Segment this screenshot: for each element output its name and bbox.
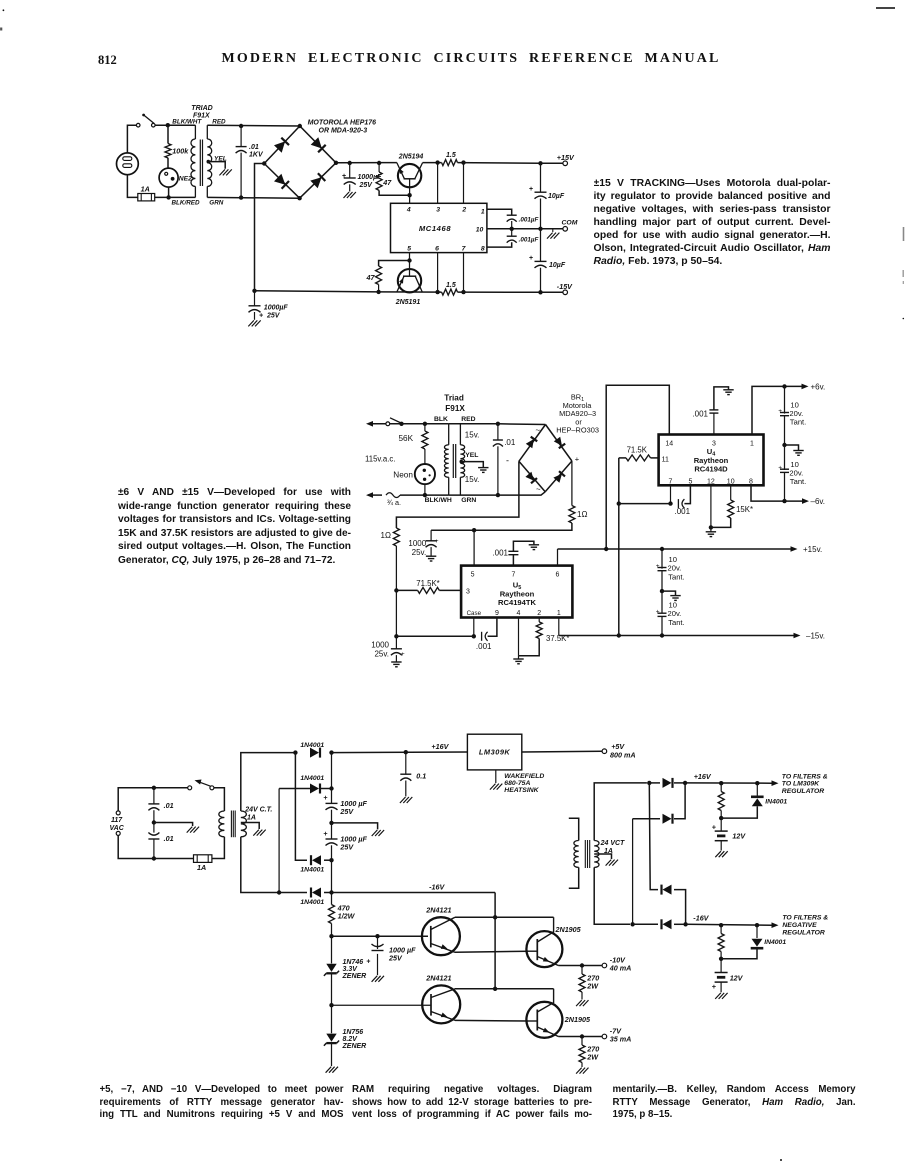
svg-text:1N746: 1N746: [343, 959, 364, 966]
junction 100k / top rail: [166, 123, 170, 127]
junction tant ground: [660, 589, 664, 593]
svg-text:-16V: -16V: [693, 914, 709, 923]
AC plug P1: [117, 153, 139, 175]
emitter rail Q1 to 1.5 resistor: [423, 162, 442, 164]
wire BR1 minus output down-left: [396, 461, 519, 528]
svg-text:IN4001: IN4001: [765, 799, 787, 806]
svg-text:8.2V: 8.2V: [343, 1036, 359, 1043]
switch S2: [386, 422, 390, 426]
resistor 470 1/2W: [331, 893, 333, 905]
junction Q2 base / 47 wire: [407, 258, 411, 262]
svg-text:0.1: 0.1: [416, 772, 426, 781]
svg-text:¾ a.: ¾ a.: [387, 498, 401, 507]
wire NE2 to bottom rail: [168, 187, 170, 197]
vertical output rail with 10uF caps: [540, 163, 542, 192]
junction battery branch -: [719, 923, 723, 927]
Q2 base lead: [409, 253, 411, 277]
svg-text:8: 8: [481, 245, 485, 252]
wire plug top to switch: [127, 125, 136, 153]
junction collector node 1: [493, 915, 497, 919]
svg-text:+: +: [656, 563, 660, 570]
svg-text:BLK/WH: BLK/WH: [425, 497, 452, 504]
Q5 collector wire: [455, 988, 554, 990]
117 VAC terminals: [116, 811, 120, 815]
-16V battery rail: [686, 923, 772, 926]
zener D6 1N756 8.2V: [331, 1005, 333, 1033]
junction pin7 riser: [461, 290, 465, 294]
svg-text:25V: 25V: [339, 843, 354, 852]
tant rail +-6v: [784, 386, 786, 413]
junction D1 anode: [293, 750, 297, 754]
output -7V wire: [558, 1036, 602, 1038]
T3 center tap ground: [241, 823, 259, 830]
resistor (battery -): [720, 925, 722, 933]
capacitor .001uF (upper): [507, 214, 517, 216]
wire BR1 plus output down: [571, 461, 573, 506]
terminal +15V: [563, 161, 568, 166]
svg-text:2W: 2W: [586, 982, 599, 991]
svg-text:REGULATOR: REGULATOR: [782, 929, 825, 936]
svg-text:Tant.: Tant.: [790, 477, 806, 486]
svg-text:.001µF: .001µF: [519, 216, 539, 223]
Q3 emitter to Q4 base: [455, 951, 528, 952]
svg-text:1000: 1000: [408, 539, 426, 548]
svg-text:1N4001: 1N4001: [300, 775, 324, 782]
svg-text:+6v.: +6v.: [811, 382, 826, 391]
svg-text:10: 10: [669, 601, 677, 610]
svg-text:1/2W: 1/2W: [338, 912, 356, 921]
svg-text:MOTOROLA HEP176: MOTOROLA HEP176: [308, 120, 377, 127]
T3 secondary bottom riser: [241, 837, 279, 893]
transistor Q3 2N4121 (upper): [422, 917, 460, 955]
svg-text:1N756: 1N756: [343, 1029, 364, 1036]
svg-text:LM309K: LM309K: [479, 748, 511, 757]
junction D8 vert / -16V rail: [630, 922, 634, 926]
LM309K ground + heatsink label: [495, 770, 497, 783]
junction +6v tant rail: [782, 384, 786, 388]
diode D9 1N4001 (discharge-): [663, 885, 672, 895]
capacitor 1000 25v (upper): [430, 530, 432, 541]
svg-text:+: +: [529, 255, 533, 262]
U5 pin 6 riser to +15v rail: [557, 549, 559, 566]
svg-text:~: ~: [536, 485, 541, 494]
switch S3: [188, 786, 192, 790]
svg-text:+: +: [778, 408, 782, 415]
resistor 270 2W (lower): [581, 1037, 583, 1046]
U4 pin 1 wire to +6v: [752, 386, 802, 434]
svg-text:4: 4: [517, 610, 521, 617]
junction .01 cap bottom: [239, 195, 243, 199]
svg-text:1.5: 1.5: [446, 152, 456, 159]
svg-text:BLK/RED: BLK/RED: [172, 200, 200, 207]
regulator U6 LM309K box: [467, 734, 521, 770]
regulator U4 Raytheon RC4194D box: [659, 435, 764, 486]
svg-text:+: +: [529, 186, 533, 193]
resistor 37.5K* on pin 2: [538, 618, 540, 622]
svg-text:Triad: Triad: [444, 394, 464, 403]
junction tant ground (6v): [782, 443, 786, 447]
bottom rail transformer to bridge: [207, 196, 299, 199]
capacitor .01 (upper): [153, 788, 155, 804]
pin 1 wire to .001 cap: [487, 209, 512, 215]
capacitor .001 at U5 pin7: [512, 555, 514, 566]
YEL center tap + ground: [207, 160, 211, 164]
U4 pin 3 comp cap to ground: [713, 413, 715, 434]
terminal COM: [563, 227, 568, 232]
resistor 47 (upper): [378, 163, 380, 172]
right margin scan marks: [903, 227, 905, 241]
svg-text:IN4001: IN4001: [764, 939, 786, 946]
capacitor 1000uF 25V (left lower): [254, 291, 256, 306]
svg-text:Neon: Neon: [393, 470, 413, 479]
capacitor .001 (case-9): [481, 632, 483, 641]
circuit 3 group: [110, 734, 829, 1073]
svg-text:VAC: VAC: [110, 825, 125, 832]
svg-text:MC1468: MC1468: [419, 224, 451, 233]
svg-text:2N4121: 2N4121: [425, 906, 451, 915]
junction 470 / Q3 base: [329, 934, 333, 938]
junction +15v / tant rail: [660, 547, 664, 551]
switch S1: [136, 123, 140, 127]
svg-text:800 mA: 800 mA: [610, 750, 636, 759]
svg-text:2N5194: 2N5194: [398, 154, 424, 161]
U5 pin 4 ground: [518, 618, 520, 656]
terminal +5V: [602, 749, 607, 754]
junction D7 anode node: [647, 781, 651, 785]
svg-text:+: +: [575, 455, 580, 464]
junction 1000uF top-right cap: [348, 161, 352, 165]
svg-text:TO FILTERS &: TO FILTERS &: [782, 915, 828, 922]
svg-text:-: -: [506, 456, 509, 466]
svg-text:11: 11: [662, 456, 669, 463]
svg-text:7: 7: [669, 479, 673, 486]
junction +15V vertical rail: [538, 161, 542, 165]
T4 center tap ground: [594, 854, 611, 859]
svg-text:1: 1: [750, 440, 754, 447]
T4 secondary top riser: [594, 783, 647, 841]
diode D10 1N4001 (on -16V rail): [633, 923, 658, 925]
riser U5 pin 5: [473, 530, 475, 565]
zener D5 1N746 3.3V: [331, 936, 333, 963]
junction .01 top: [152, 786, 156, 790]
svg-text:WAKEFIELD: WAKEFIELD: [504, 773, 544, 780]
junction 47 lower / bottom rail: [376, 290, 380, 294]
pin 10 wire / COM node: [487, 228, 541, 230]
junction -15v / 71.5K vertical: [617, 633, 621, 637]
svg-text:115v.a.c.: 115v.a.c.: [365, 455, 395, 464]
svg-text:Tant.: Tant.: [790, 418, 806, 427]
svg-text:5: 5: [471, 572, 475, 579]
svg-text:.001µF: .001µF: [519, 236, 539, 243]
D8 feed vertical: [632, 819, 634, 925]
svg-text:14: 14: [665, 440, 673, 447]
svg-text:24V C.T.: 24V C.T.: [244, 807, 272, 814]
svg-text:1.5: 1.5: [446, 282, 456, 289]
svg-text:15v.: 15v.: [465, 431, 480, 440]
svg-text:15K*: 15K*: [736, 505, 753, 514]
U4 pin 12 ground: [710, 485, 712, 527]
svg-text:3: 3: [712, 440, 716, 447]
svg-text:–6v.: –6v.: [811, 497, 826, 506]
svg-text:+16V: +16V: [431, 742, 449, 751]
circuit 2 group: [365, 382, 825, 667]
svg-text:8: 8: [749, 479, 753, 486]
svg-text:1A: 1A: [197, 863, 206, 872]
+16V battery rail: [685, 782, 772, 784]
svg-text:TRIAD: TRIAD: [191, 105, 212, 112]
junction caps / pin10: [510, 227, 514, 231]
svg-text:10µF: 10µF: [548, 193, 565, 200]
diode D8 1N4001 (charge 2): [633, 818, 660, 820]
diode D7 1N4001 (charge+): [649, 782, 660, 784]
wire to +15V: [458, 162, 541, 165]
svg-text:HEATSINK: HEATSINK: [504, 787, 539, 794]
junction resistor/diode bottom +: [719, 816, 723, 820]
svg-text:+: +: [712, 982, 717, 991]
svg-text:12V: 12V: [732, 831, 746, 840]
BR1 diode bottom-left: [525, 472, 534, 481]
svg-text:71.5K*: 71.5K*: [416, 579, 439, 588]
svg-text:+: +: [656, 609, 660, 616]
wire switch to transformer, top rail: [155, 124, 195, 126]
riser pin 6: [437, 253, 439, 293]
svg-text:1A: 1A: [247, 814, 256, 821]
+15v rail: [558, 548, 791, 550]
svg-text:5: 5: [688, 479, 692, 486]
svg-text:+: +: [323, 793, 328, 802]
svg-text:+: +: [366, 959, 370, 966]
svg-text:25V: 25V: [266, 313, 281, 320]
bridge diode top-right: [311, 137, 322, 148]
svg-text:-15V: -15V: [557, 282, 573, 291]
svg-text:6: 6: [556, 572, 560, 579]
main filter rail verticals + caps: [331, 753, 333, 789]
svg-text:24 VCT: 24 VCT: [600, 840, 625, 847]
junction -15v / tant rail: [660, 633, 664, 637]
input wiring top: [118, 788, 188, 811]
svg-text:100k: 100k: [172, 147, 189, 156]
svg-text:2N1905: 2N1905: [555, 925, 582, 934]
svg-text:35 mA: 35 mA: [610, 1035, 632, 1044]
svg-text:+: +: [259, 313, 263, 320]
svg-text:10µF: 10µF: [549, 262, 566, 269]
junction -6v tant rail: [782, 499, 786, 503]
svg-text:NE2: NE2: [179, 175, 192, 182]
page top-right mark: [876, 7, 895, 9]
svg-text:ZENER: ZENER: [342, 973, 367, 980]
svg-text:OR MDA-920-3: OR MDA-920-3: [319, 127, 368, 134]
junction D3 / filter rail: [329, 858, 333, 862]
resistor 47 (lower): [379, 261, 410, 267]
fuse 1A: [138, 194, 155, 201]
svg-text:3: 3: [436, 207, 440, 214]
svg-text:RC4194D: RC4194D: [694, 465, 728, 474]
svg-text:ZENER: ZENER: [342, 1043, 367, 1050]
svg-text:10: 10: [476, 226, 484, 233]
resistor (battery +): [720, 783, 722, 791]
bridge diode top-left: [274, 141, 285, 152]
resistor 71.5K (upper): [619, 457, 626, 459]
fuse 1A (bottom): [194, 855, 212, 863]
bridge diode bottom-right: [310, 177, 321, 188]
battery 12V - (reversed): [720, 959, 722, 973]
circuit 1 group: [117, 105, 578, 327]
wire plug bottom / bottom rail: [127, 175, 137, 198]
svg-text:+: +: [778, 465, 782, 472]
svg-text:RED: RED: [461, 416, 475, 423]
svg-text:1N4001: 1N4001: [300, 742, 324, 749]
BR1 diode top-left: [526, 439, 534, 448]
transformer T4 24 VCT 1A: [569, 818, 579, 840]
svg-text:Raytheon: Raytheon: [694, 456, 729, 465]
svg-text:9: 9: [495, 610, 499, 617]
svg-text:+: +: [401, 651, 405, 658]
wire 47 to Q1 base node: [379, 190, 407, 195]
svg-text:.001: .001: [675, 507, 691, 516]
svg-text:56K: 56K: [399, 434, 414, 443]
svg-text:BLK/WHT: BLK/WHT: [172, 119, 202, 126]
capacitor 0.1: [405, 752, 407, 774]
junction +16V battery rail: [683, 781, 687, 785]
svg-text:+: +: [323, 829, 328, 838]
U5 pin 1 wire to -15v rail: [558, 618, 560, 636]
top rail transformer to bridge: [207, 124, 299, 127]
junction 47 top: [377, 161, 381, 165]
svg-text:GRN: GRN: [461, 497, 476, 504]
resistor 1 ohm (right): [569, 506, 575, 524]
svg-text:47: 47: [382, 178, 392, 187]
svg-text:BLK: BLK: [434, 416, 448, 423]
junction D2 vert / bottom wire: [277, 890, 281, 894]
resistor 270 2W (upper): [581, 966, 583, 975]
capacitor 10 20v Tant (-6v): [784, 445, 786, 470]
corner scan marks: [3, 9, 5, 11]
junction resistor/diode bottom -: [719, 957, 723, 961]
transformer T3 24V CT: [219, 811, 225, 837]
ground at COM: [552, 229, 554, 232]
resistor 56K: [423, 422, 427, 426]
junction +15v / long vertical: [604, 547, 608, 551]
capacitor 1000uF 25V (bridge +): [349, 163, 351, 178]
junction D4 / filter rail: [329, 890, 333, 894]
71.5K vertical -15 feed: [618, 458, 620, 636]
svg-text:2N4121: 2N4121: [425, 974, 451, 983]
svg-text:+16V: +16V: [694, 772, 712, 781]
COM line from bridge left vertex: [255, 164, 265, 291]
resistor 100k: [167, 125, 169, 143]
junction zeners / Q5 base: [329, 1003, 333, 1007]
riser pin 2: [463, 163, 465, 204]
negative rail (bottom): [255, 291, 379, 292]
transistor Q6 2N1905 (lower): [526, 1002, 562, 1038]
svg-text:7: 7: [511, 572, 515, 579]
riser pin 3: [437, 163, 439, 204]
junction -15V vertical rail: [538, 290, 542, 294]
riser pin 7: [463, 253, 465, 293]
junction pin3 riser: [435, 160, 439, 164]
svg-text:12: 12: [707, 479, 715, 486]
svg-text:4: 4: [406, 207, 411, 214]
svg-text:COM: COM: [562, 220, 578, 227]
svg-text:.001: .001: [692, 409, 708, 418]
U5 pin 9 wire: [488, 618, 497, 637]
svg-text:3.3V: 3.3V: [343, 966, 359, 973]
junction pin2 riser: [461, 160, 465, 164]
junction NE2 / bottom rail: [166, 195, 170, 199]
svg-text:10: 10: [790, 400, 798, 409]
+16V rail to LM309K: [332, 751, 468, 754]
svg-text:117: 117: [111, 817, 123, 824]
junction COM vertical rail: [538, 227, 542, 231]
junction 71.5K* node: [394, 588, 398, 592]
tantalum rail +-15v: [661, 549, 663, 569]
svg-text:1N4001: 1N4001: [300, 899, 324, 906]
diode D11 1N4001 vertical +: [756, 783, 758, 796]
junction .01 cap top: [239, 124, 243, 128]
pin 8 wire: [487, 242, 512, 247]
-16V rail left: [332, 892, 496, 894]
svg-text:.01: .01: [249, 144, 259, 151]
capacitor .01 (line filter): [496, 422, 500, 426]
svg-text:7: 7: [462, 245, 467, 252]
rails into bridge BR1: [449, 423, 498, 425]
svg-text:1000: 1000: [371, 641, 389, 650]
U5 case pin wire: [473, 618, 475, 637]
svg-text:1000µF: 1000µF: [264, 305, 289, 312]
battery 12V +: [720, 818, 722, 831]
capacitor 1000uF 25V (bias): [332, 935, 429, 937]
svg-text:1: 1: [481, 208, 485, 215]
capacitor 10 20v Tant (lower right): [661, 591, 663, 613]
svg-text:1N4001: 1N4001: [300, 867, 324, 874]
transformer T1 Triad F91X: [194, 125, 196, 139]
svg-text:5: 5: [407, 245, 411, 252]
transistor Q1 2N5194: [398, 164, 421, 187]
svg-text:25V: 25V: [388, 954, 403, 963]
BR1 diode bottom-right: [553, 474, 562, 483]
svg-text:25v.: 25v.: [412, 548, 427, 557]
Q1 base lead: [409, 179, 411, 204]
svg-text:2: 2: [537, 610, 541, 617]
U4 pin 8 wire to -6v: [751, 485, 803, 501]
capacitor 1000 25v (lower left): [395, 636, 397, 649]
junction COM / bottom rail: [252, 289, 256, 293]
U4 pins 7,5 with .001 cap: [670, 485, 672, 503]
svg-text:.01: .01: [504, 438, 516, 447]
D2 feed vertical: [278, 789, 280, 893]
svg-text:+15v.: +15v.: [803, 545, 822, 554]
svg-text:1Ω: 1Ω: [381, 531, 391, 540]
capacitor .01 (lower): [153, 823, 155, 833]
svg-text:RC4194TK: RC4194TK: [498, 598, 536, 607]
svg-text:2N1905: 2N1905: [564, 1015, 591, 1024]
LM309K output wire: [522, 750, 602, 753]
svg-text:GRN: GRN: [209, 200, 223, 207]
svg-text:Case: Case: [467, 610, 482, 617]
svg-text:3: 3: [466, 588, 470, 595]
svg-text:.001: .001: [492, 549, 508, 558]
diode D3 1N4001 (third): [312, 855, 321, 865]
positive rail bridge to Q1: [336, 162, 397, 164]
svg-text:1Ω: 1Ω: [577, 510, 587, 519]
junction mid filter caps: [329, 821, 333, 825]
transistor Q2 2N5191: [398, 269, 421, 292]
svg-text:+15V: +15V: [557, 153, 575, 162]
svg-text:HEP–RO303: HEP–RO303: [556, 426, 599, 435]
svg-text:10: 10: [790, 460, 798, 469]
svg-text:–15v.: –15v.: [806, 632, 825, 641]
T3 secondary top riser: [241, 753, 296, 811]
